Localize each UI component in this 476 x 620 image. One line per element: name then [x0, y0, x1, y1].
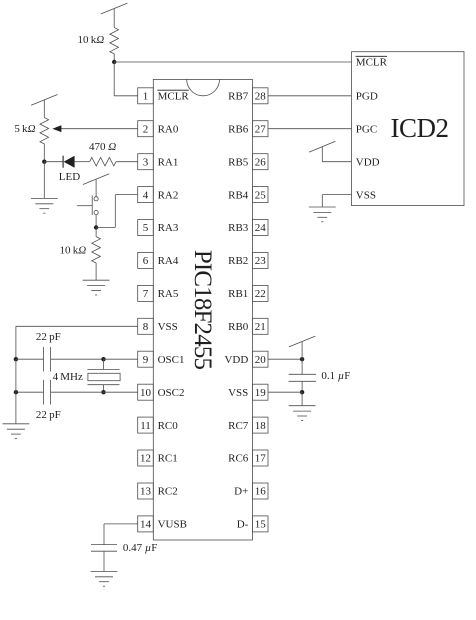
wire R4 to ground	[95, 263, 97, 280]
svg-text:22: 22	[255, 288, 266, 300]
wire node A down to pin 1	[114, 62, 138, 96]
svg-text:24: 24	[255, 222, 267, 234]
svg-text:5: 5	[143, 222, 149, 234]
svg-text:25: 25	[255, 189, 267, 201]
svg-text:4 MHz: 4 MHz	[53, 371, 83, 383]
pin 14 VUSB	[138, 516, 187, 532]
VDD supply rail (pot)	[31, 95, 57, 106]
svg-text:VSS: VSS	[356, 189, 376, 201]
pin 15 D-	[237, 516, 268, 532]
svg-text:9: 9	[143, 354, 149, 366]
svg-text:RA1: RA1	[158, 156, 179, 168]
pin 11 RC0	[138, 417, 179, 433]
wire R1 to node A	[113, 54, 115, 62]
pin 22 RB1	[228, 285, 268, 301]
svg-text:22 pF: 22 pF	[36, 331, 61, 343]
svg-text:27: 27	[255, 123, 267, 135]
wire C4 to ground	[103, 551, 105, 571]
svg-text:RC1: RC1	[158, 453, 178, 465]
wire supply to R2	[43, 100, 45, 118]
svg-text:RA2: RA2	[158, 189, 179, 201]
svg-text:RA4: RA4	[158, 255, 179, 267]
wire pin 8 VSS to left rail	[16, 326, 138, 359]
wire node D to C1	[16, 358, 44, 360]
VDD supply rail (top)	[101, 3, 127, 14]
svg-text:RB5: RB5	[228, 156, 249, 168]
wiper arrow to pin 2 RA0	[52, 125, 137, 132]
svg-text:RB7: RB7	[228, 91, 249, 103]
pin 25 RB4	[228, 187, 268, 203]
svg-text:10 kΩ: 10 kΩ	[78, 34, 105, 46]
svg-text:21: 21	[255, 321, 266, 333]
wire C3 to node I	[301, 381, 303, 392]
wire pin 20 VDD to node H	[268, 358, 302, 360]
node C (switch junction)	[94, 225, 98, 229]
svg-text:LED: LED	[59, 171, 80, 183]
svg-text:RA3: RA3	[158, 222, 179, 234]
node D (rail / C1)	[14, 357, 18, 361]
svg-text:10 kΩ: 10 kΩ	[60, 245, 87, 257]
svg-text:MCLR: MCLR	[158, 91, 190, 103]
wire ICD2 VSS to ground	[322, 195, 351, 207]
wire pin 14 VUSB to C4	[104, 524, 138, 545]
svg-text:PIC18F2455: PIC18F2455	[189, 250, 216, 370]
pin 20 VDD	[224, 351, 268, 367]
svg-text:RC2: RC2	[158, 486, 178, 498]
crystal X1 4 MHz	[53, 369, 121, 384]
wire node E to crystal	[103, 359, 105, 369]
svg-text:19: 19	[255, 387, 267, 399]
node I (VSS net)	[300, 390, 304, 394]
VDD supply rail (ICD2)	[309, 141, 335, 152]
svg-text:RB4: RB4	[228, 189, 249, 201]
resistor R4 10 k	[60, 237, 101, 263]
wire C2 to node G	[16, 391, 44, 393]
pin 26 RB5	[228, 154, 268, 170]
svg-text:RB3: RB3	[228, 222, 249, 234]
svg-text:RC7: RC7	[228, 420, 249, 432]
ground (pot branch)	[31, 198, 58, 213]
svg-text:11: 11	[140, 420, 151, 432]
ICD2 module U2	[352, 52, 465, 206]
wire crystal to node F	[103, 385, 105, 393]
svg-text:MCLR: MCLR	[356, 57, 388, 69]
svg-text:VSS: VSS	[158, 321, 178, 333]
node G (rail / C2)	[14, 390, 18, 394]
svg-text:RB0: RB0	[228, 321, 249, 333]
svg-text:6: 6	[143, 255, 149, 267]
svg-text:16: 16	[255, 486, 267, 498]
svg-text:RC0: RC0	[158, 420, 179, 432]
pin 9 OSC1	[138, 351, 185, 367]
svg-text:7: 7	[143, 288, 149, 300]
pin 18 RC7	[228, 417, 268, 433]
wire supply to switch	[95, 179, 97, 197]
wire LED to R3	[75, 161, 90, 163]
wire pin 28 RB7 to ICD2 PGD	[268, 95, 352, 97]
svg-text:12: 12	[140, 453, 151, 465]
pin 28 RB7	[228, 88, 268, 104]
wire R2 to node B	[43, 144, 45, 162]
node E (OSC1 net)	[101, 357, 105, 361]
svg-text:5 kΩ: 5 kΩ	[14, 123, 35, 135]
wire node H to C3	[301, 359, 303, 374]
svg-text:15: 15	[255, 519, 267, 531]
pin 16 D+	[234, 483, 268, 499]
wire pin 27 RB6 to ICD2 PGC	[268, 128, 352, 130]
resistor R1 10 k	[78, 28, 119, 54]
svg-text:20: 20	[255, 354, 267, 366]
svg-text:VDD: VDD	[356, 156, 380, 168]
svg-text:26: 26	[255, 156, 267, 168]
svg-text:VUSB: VUSB	[158, 519, 187, 531]
svg-text:OSC1: OSC1	[158, 354, 185, 366]
capacitor C3 0.1 uF	[289, 370, 351, 382]
wire node F to pin 10 OSC2	[104, 391, 138, 393]
svg-text:OSC2: OSC2	[158, 387, 185, 399]
svg-text:RB2: RB2	[228, 255, 248, 267]
wire node B to ground	[43, 162, 45, 199]
wire node B to LED cathode	[44, 161, 63, 163]
svg-text:470 Ω: 470 Ω	[89, 141, 116, 153]
wire pin 19 VSS to node I	[268, 391, 302, 393]
svg-text:D-: D-	[237, 519, 249, 531]
potentiometer R2 5 k	[14, 118, 48, 144]
pin 1 MCLR	[138, 88, 190, 104]
pin 3 RA1	[138, 154, 179, 170]
node F (OSC2 net)	[101, 390, 105, 394]
pin 6 RA4	[138, 252, 179, 268]
resistor R3 470 ohm	[89, 141, 116, 166]
wire node F to C2	[51, 391, 104, 393]
wire node I to ground	[301, 392, 303, 406]
svg-text:14: 14	[140, 519, 152, 531]
svg-text:RA5: RA5	[158, 288, 179, 300]
ground (pin 19)	[289, 406, 316, 421]
wire rail node D to node G to ground	[15, 359, 17, 424]
pin 2 RA0	[138, 121, 179, 137]
wire node C to pin 4 RA2	[96, 195, 138, 228]
pin 5 RA3	[138, 220, 179, 236]
svg-text:22 pF: 22 pF	[36, 409, 61, 421]
svg-text:10: 10	[140, 387, 152, 399]
pin 12 RC1	[138, 450, 178, 466]
svg-text:28: 28	[255, 91, 267, 103]
svg-text:1: 1	[143, 91, 149, 103]
pin 8 VSS	[138, 318, 178, 334]
svg-text:23: 23	[255, 255, 267, 267]
capacitor C2 22 pF	[36, 380, 61, 421]
pin 4 RA2	[138, 187, 179, 203]
pin 19 VSS	[228, 384, 268, 400]
node A (MCLR net)	[112, 60, 116, 64]
node H (VDD net)	[300, 357, 304, 361]
wire node C to R4	[95, 228, 97, 237]
svg-text:0.1 µF: 0.1 µF	[321, 370, 350, 382]
wire node E to pin 9 OSC1	[104, 358, 138, 360]
pin 17 RC6	[228, 450, 268, 466]
wire supply to R1	[113, 9, 115, 28]
svg-text:VDD: VDD	[224, 354, 248, 366]
svg-text:2: 2	[143, 123, 149, 135]
svg-text:17: 17	[255, 453, 267, 465]
capacitor C1 22 pF	[36, 331, 61, 371]
pin 13 RC2	[138, 483, 178, 499]
pin 10 OSC2	[138, 384, 185, 400]
pin 7 RA5	[138, 285, 179, 301]
ground (VUSB cap)	[91, 571, 118, 586]
svg-text:4: 4	[143, 189, 149, 201]
LED D1	[59, 156, 80, 183]
svg-text:RB6: RB6	[228, 123, 249, 135]
ground (oscillator rail)	[3, 424, 30, 439]
svg-text:3: 3	[143, 156, 149, 168]
svg-text:D+: D+	[234, 486, 248, 498]
pin 27 RB6	[228, 121, 268, 137]
svg-text:RB1: RB1	[228, 288, 248, 300]
svg-text:0.47 µF: 0.47 µF	[123, 542, 157, 554]
svg-text:13: 13	[140, 486, 152, 498]
capacitor C4 0.47 uF	[91, 542, 157, 554]
wire node A to ICD2 MCLR	[114, 61, 351, 63]
svg-text:VSS: VSS	[228, 387, 248, 399]
push button S1	[77, 195, 98, 215]
ground (switch branch)	[83, 280, 110, 295]
svg-text:8: 8	[143, 321, 149, 333]
svg-text:RA0: RA0	[158, 123, 179, 135]
svg-text:PGC: PGC	[356, 123, 377, 135]
wire supply to ICD2 VDD	[322, 147, 351, 162]
wire C1 to node E	[51, 358, 104, 360]
pin 23 RB2	[228, 252, 268, 268]
wire switch to node C	[95, 215, 97, 228]
VDD supply rail (switch)	[83, 174, 109, 185]
svg-text:18: 18	[255, 420, 267, 432]
node B (LED junction)	[42, 160, 46, 164]
wire R3 to pin 3 RA1	[116, 161, 138, 163]
wire supply to node H	[301, 342, 303, 360]
pin 21 RB0	[228, 318, 268, 334]
VDD supply rail (pin 20)	[289, 336, 315, 347]
svg-text:ICD2: ICD2	[391, 113, 449, 143]
svg-text:RC6: RC6	[228, 453, 249, 465]
IC U1 PIC18F2455 body	[153, 79, 252, 540]
pin 24 RB3	[228, 220, 268, 236]
ground (ICD2 VSS)	[309, 207, 336, 222]
svg-text:PGD: PGD	[356, 91, 378, 103]
